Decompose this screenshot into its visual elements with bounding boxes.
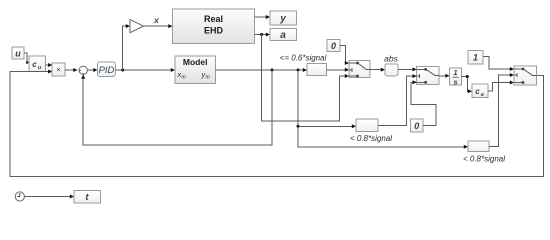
wire Real EHD to outport a xyxy=(254,33,270,37)
product block x xyxy=(52,63,65,76)
junction dot on LT1 input xyxy=(297,125,300,128)
svg-text:0: 0 xyxy=(414,121,419,131)
svg-text:c: c xyxy=(32,60,37,69)
wire product to sum xyxy=(65,68,78,72)
inport block u xyxy=(12,47,24,59)
wire sum to PID xyxy=(87,68,97,72)
wire gain to Real EHD xyxy=(144,24,173,28)
wire c_u to product xyxy=(46,63,53,67)
wire LE to switch U1 input 2 xyxy=(327,68,350,72)
svg-text:EHD: EHD xyxy=(204,26,224,36)
svg-text:c: c xyxy=(475,87,480,96)
label LT1 name xyxy=(350,134,392,143)
junction dot ym down branch xyxy=(297,69,300,72)
constant block 0 top xyxy=(327,39,340,51)
outport block y xyxy=(270,11,296,25)
svg-text:×: × xyxy=(56,65,60,74)
clock block xyxy=(15,192,24,201)
integrator block 1/s xyxy=(450,68,462,87)
sum junction xyxy=(79,66,88,74)
svg-text:m: m xyxy=(182,75,186,81)
svg-text:<= 0.6*signal: <= 0.6*signal xyxy=(280,54,327,63)
label abs xyxy=(384,53,398,63)
relational block LT1 xyxy=(356,119,378,132)
gain triangle xyxy=(130,20,144,33)
svg-text:abs: abs xyxy=(384,53,398,63)
wire ym branch continue down right to relational LT2 xyxy=(298,126,468,149)
svg-text:1: 1 xyxy=(473,53,478,63)
svg-text:y: y xyxy=(279,13,286,24)
wire constant 0 bottom around to switch U2 input 3 xyxy=(411,80,436,125)
svg-text:a: a xyxy=(280,30,286,41)
abs block xyxy=(385,64,398,76)
svg-text:Real: Real xyxy=(204,14,223,24)
wire u to c_u xyxy=(24,53,30,64)
outport block a xyxy=(270,29,296,41)
constant block 1 xyxy=(468,50,483,64)
wire Model to relational LE with junctions xyxy=(215,68,307,72)
wire clock to outport t xyxy=(24,195,74,199)
wire LT1 to switch U2 input 2 xyxy=(378,74,417,125)
wire switch U1 to abs xyxy=(370,68,385,72)
svg-text:< 0.8*signal: < 0.8*signal xyxy=(463,155,505,164)
junction dot on a line xyxy=(260,33,263,36)
wire c_a to switch U3 input 3 xyxy=(488,81,514,92)
wire a branch down right up into switch U1 input 3 xyxy=(262,35,349,122)
svg-text:< 0.8*signal: < 0.8*signal xyxy=(350,134,392,143)
label LE block name xyxy=(280,54,327,63)
controller block PID xyxy=(98,62,116,77)
wire constant 1 to switch U3 input 1 xyxy=(483,57,514,72)
relational block LT2 xyxy=(468,141,489,152)
switch block U1 xyxy=(349,60,370,77)
svg-text:1: 1 xyxy=(453,68,457,77)
constant block 0 bottom xyxy=(411,119,424,132)
junction dot ym feedback xyxy=(271,69,274,72)
wire switch U2 to integrator xyxy=(439,74,450,78)
wire ym feedback down left up into sum bottom xyxy=(81,70,272,145)
relational block LE xyxy=(307,64,327,76)
label LT2 name xyxy=(463,155,505,164)
wire Real EHD to outport y xyxy=(254,15,270,19)
junction dot after integrator xyxy=(466,75,469,78)
model block Model xyxy=(175,56,215,83)
wire LT2 up to switch U3 input 2 xyxy=(489,73,514,146)
svg-text:s: s xyxy=(453,78,457,87)
outport block t xyxy=(74,191,101,203)
svg-text:PID: PID xyxy=(99,65,115,76)
svg-text:0: 0 xyxy=(331,41,336,51)
gain block c_a xyxy=(472,84,488,98)
signal label x xyxy=(153,15,160,25)
svg-text:Model: Model xyxy=(183,57,208,67)
svg-text:u: u xyxy=(15,49,21,59)
svg-text:m: m xyxy=(206,75,210,81)
plant block Real EHD xyxy=(173,9,255,43)
wire ym branch down to relational LT1 xyxy=(298,70,356,128)
gain block c_u xyxy=(29,56,46,72)
wire integrator to c_a xyxy=(462,77,473,94)
junction dot after PID xyxy=(121,69,124,72)
svg-text:a: a xyxy=(481,92,484,98)
wire feedback from switch U3 output: right down bottom left up into product xyxy=(10,70,543,177)
wire constant 0 to switch U1 input 1 xyxy=(340,46,349,66)
switch block U3 xyxy=(514,66,536,85)
wire abs to switch U2 input 1 xyxy=(398,67,417,71)
switch block U2 xyxy=(417,66,439,84)
wire junction up to gain triangle xyxy=(123,24,130,70)
wire PID to Model with junction xyxy=(115,68,175,72)
